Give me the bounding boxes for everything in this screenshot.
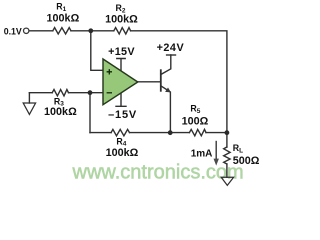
ground (left) stub [28, 93, 30, 103]
svg-text:–15V: –15V [108, 109, 137, 121]
wire node A down to op-amp + input [91, 31, 103, 71]
wire R4 to emitter node [130, 132, 190, 134]
wire R2 to top-right corner, down right side [131, 31, 227, 133]
output node junction dot [225, 130, 230, 135]
svg-text:100kΩ: 100kΩ [105, 14, 138, 26]
svg-text:R5: R5 [190, 104, 200, 115]
svg-text:100kΩ: 100kΩ [47, 13, 80, 25]
svg-text:500Ω: 500Ω [233, 155, 260, 167]
op-amp + symbol [107, 69, 112, 74]
resistor R1 [53, 28, 71, 34]
svg-text:+24V: +24V [157, 42, 185, 54]
ground (right, open triangle) [221, 177, 233, 185]
resistor RL (vertical) [224, 147, 230, 164]
emitter arrowhead [165, 88, 171, 93]
transistor emitter [161, 86, 171, 133]
wire R1 to node A [71, 30, 114, 32]
wire bottom rail left segment [90, 132, 111, 134]
op-amp - symbol [107, 92, 112, 94]
op-amp U1 [103, 59, 138, 105]
svg-text:R1: R1 [56, 2, 66, 13]
svg-text:100Ω: 100Ω [182, 116, 209, 128]
resistor R3 [52, 90, 68, 96]
emitter node junction dot [168, 130, 173, 135]
+24V supply bar [167, 54, 176, 56]
node A junction dot [88, 28, 93, 33]
wire RL to right ground [226, 164, 228, 177]
wire R5 to output node [206, 132, 227, 134]
node B junction dot [88, 90, 93, 95]
svg-text:100kΩ: 100kΩ [44, 106, 77, 118]
wire output node down to RL [226, 133, 228, 147]
wire R3 to node B to op-amp - input [69, 92, 104, 94]
op-amp -15V stub and bar [116, 94, 126, 107]
resistor R4 [111, 129, 129, 135]
input terminal circle [24, 28, 29, 33]
wire op-amp output to transistor base [138, 81, 161, 83]
wire node B down to bottom rail [89, 93, 91, 133]
svg-text:RL: RL [233, 143, 243, 154]
op-amp +15V stub and bar [117, 59, 125, 71]
svg-text:100kΩ: 100kΩ [106, 147, 139, 159]
svg-text:+15V: +15V [108, 46, 135, 58]
svg-text:0.1V: 0.1V [4, 26, 22, 36]
svg-text:www.cntronics.com: www.cntronics.com [72, 162, 244, 184]
ground (left, open triangle) [23, 103, 35, 114]
resistor R2 [114, 28, 131, 34]
transistor Q1 base bar [160, 70, 162, 91]
transistor collector [161, 55, 171, 75]
wire left ground to R3 [29, 92, 52, 94]
svg-text:1mA: 1mA [191, 148, 213, 159]
1mA current arrow [215, 141, 217, 159]
svg-text:R4: R4 [116, 136, 126, 147]
resistor R5 [189, 129, 206, 135]
wire input terminal to R1 [29, 30, 53, 32]
